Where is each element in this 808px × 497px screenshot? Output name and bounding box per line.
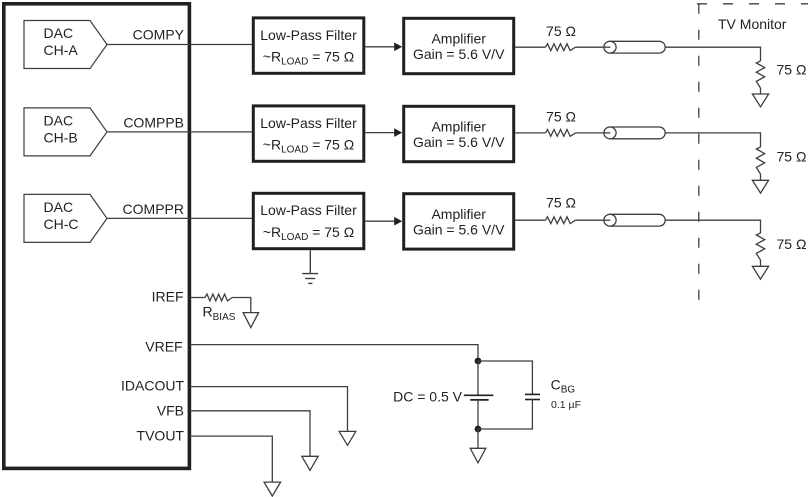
svg-text:Amplifier: Amplifier xyxy=(431,31,486,47)
amplifier block row B xyxy=(404,106,514,161)
svg-text:75 Ω: 75 Ω xyxy=(546,23,576,39)
wire coax to TV monitor row B xyxy=(665,133,760,147)
coax cable row B xyxy=(604,127,665,139)
ground RBIAS xyxy=(243,313,259,328)
ground TVOUT xyxy=(264,482,281,496)
resistor 75 ohm series row C xyxy=(546,195,576,224)
wire resistor to coax row B xyxy=(576,132,605,134)
wire resistor to coax row A xyxy=(576,46,605,48)
wire DC source to bottom node xyxy=(477,400,479,429)
wire COMPY to low-pass filter xyxy=(107,44,252,46)
wire coax to TV monitor row C xyxy=(665,220,760,233)
low-pass filter block row C xyxy=(253,193,363,248)
wire amplifier to series resistor row C xyxy=(515,219,545,221)
DAC CH-C block xyxy=(24,194,107,242)
wire VFB xyxy=(190,411,310,457)
svg-text:75 Ω: 75 Ω xyxy=(777,62,807,78)
resistor 75 ohm termination row A xyxy=(756,61,806,88)
amplifier block row C xyxy=(404,194,514,249)
svg-text:IREF: IREF xyxy=(152,289,184,305)
svg-text:COMPPB: COMPPB xyxy=(123,114,184,130)
wire termination resistor to ground row B xyxy=(760,174,762,180)
low-pass filter block row A xyxy=(253,18,363,73)
ground VFB xyxy=(302,456,318,470)
wire node to DC source xyxy=(477,361,479,395)
wire TVOUT xyxy=(190,436,272,482)
wire IREF to RBIAS xyxy=(190,297,205,299)
svg-text:Gain = 5.6 V/V: Gain = 5.6 V/V xyxy=(413,46,505,62)
resistor 75 ohm termination row C xyxy=(756,233,806,260)
svg-text:IDACOUT: IDACOUT xyxy=(121,378,184,394)
TV Monitor dashed enclosure xyxy=(697,4,808,301)
low-pass filter block row B xyxy=(253,106,363,161)
svg-text:75 Ω: 75 Ω xyxy=(546,195,576,211)
svg-text:COMPPR: COMPPR xyxy=(123,201,184,217)
svg-text:DAC: DAC xyxy=(44,199,74,215)
svg-text:Amplifier: Amplifier xyxy=(431,206,486,222)
chip U1 DAC device outline xyxy=(4,4,190,469)
wire coax to TV monitor row A xyxy=(665,47,760,61)
earth ground of low-pass filter row C xyxy=(302,250,318,283)
svg-text:75 Ω: 75 Ω xyxy=(777,236,807,252)
svg-text:DAC: DAC xyxy=(44,113,74,129)
svg-text:Low-Pass Filter: Low-Pass Filter xyxy=(260,27,357,43)
svg-text:VREF: VREF xyxy=(145,339,182,355)
resistor 75 ohm series row B xyxy=(546,109,576,137)
svg-text:DC = 0.5 V: DC = 0.5 V xyxy=(393,389,463,405)
junction node bottom xyxy=(475,426,482,433)
resistor 75 ohm termination row B xyxy=(756,147,806,174)
junction node top xyxy=(475,358,482,365)
ground VREF net xyxy=(470,448,486,463)
svg-text:Gain = 5.6 V/V: Gain = 5.6 V/V xyxy=(413,221,505,237)
svg-text:CH-C: CH-C xyxy=(44,216,79,232)
wire IDACOUT xyxy=(190,387,348,432)
wire RBIAS to ground xyxy=(232,298,250,313)
arrow wire low-pass filter to amplifier row A xyxy=(365,43,402,52)
DC source 0.5 V xyxy=(393,389,493,405)
svg-text:Low-Pass Filter: Low-Pass Filter xyxy=(260,202,357,218)
svg-text:COMPY: COMPY xyxy=(133,27,185,43)
arrow wire low-pass filter to amplifier row C xyxy=(365,217,402,226)
wire amplifier to series resistor row A xyxy=(515,46,545,48)
DAC CH-A block xyxy=(24,21,107,69)
svg-text:DAC: DAC xyxy=(44,25,74,41)
wire amplifier to series resistor row B xyxy=(515,132,545,134)
svg-text:TV Monitor: TV Monitor xyxy=(718,16,787,32)
resistor RBIAS xyxy=(203,294,236,323)
ground row B xyxy=(752,180,768,193)
ground row C xyxy=(752,266,768,279)
wire termination resistor to ground row A xyxy=(760,88,762,94)
wire CBG to bottom node xyxy=(478,400,532,430)
DAC CH-B block xyxy=(24,108,107,156)
svg-text:Low-Pass Filter: Low-Pass Filter xyxy=(260,115,357,131)
ground row A xyxy=(752,94,768,107)
svg-text:VFB: VFB xyxy=(157,403,184,419)
amplifier block row A xyxy=(404,18,514,73)
svg-text:0.1 µF: 0.1 µF xyxy=(551,399,581,411)
coax cable row C xyxy=(604,214,665,226)
wire branch to CBG xyxy=(478,361,532,394)
wire termination resistor to ground row C xyxy=(760,260,762,266)
capacitor CBG 0.1 uF xyxy=(525,377,581,411)
svg-text:CH-A: CH-A xyxy=(44,42,79,58)
svg-text:75 Ω: 75 Ω xyxy=(777,149,807,165)
svg-text:CH-B: CH-B xyxy=(44,129,78,145)
wire resistor to coax row C xyxy=(576,219,605,221)
svg-text:75 Ω: 75 Ω xyxy=(546,109,576,125)
wire COMPPR to low-pass filter xyxy=(107,217,252,219)
ground IDACOUT xyxy=(339,431,356,445)
svg-text:Gain = 5.6 V/V: Gain = 5.6 V/V xyxy=(413,134,505,150)
svg-text:TVOUT: TVOUT xyxy=(137,428,185,444)
resistor 75 ohm series row A xyxy=(546,23,576,51)
wire bottom node to ground xyxy=(477,429,479,448)
svg-text:Amplifier: Amplifier xyxy=(431,119,486,135)
wire COMPPB to low-pass filter xyxy=(107,131,252,133)
coax cable row A xyxy=(604,41,665,53)
wire VREF to DC source xyxy=(190,345,478,361)
arrow wire low-pass filter to amplifier row B xyxy=(365,128,402,137)
